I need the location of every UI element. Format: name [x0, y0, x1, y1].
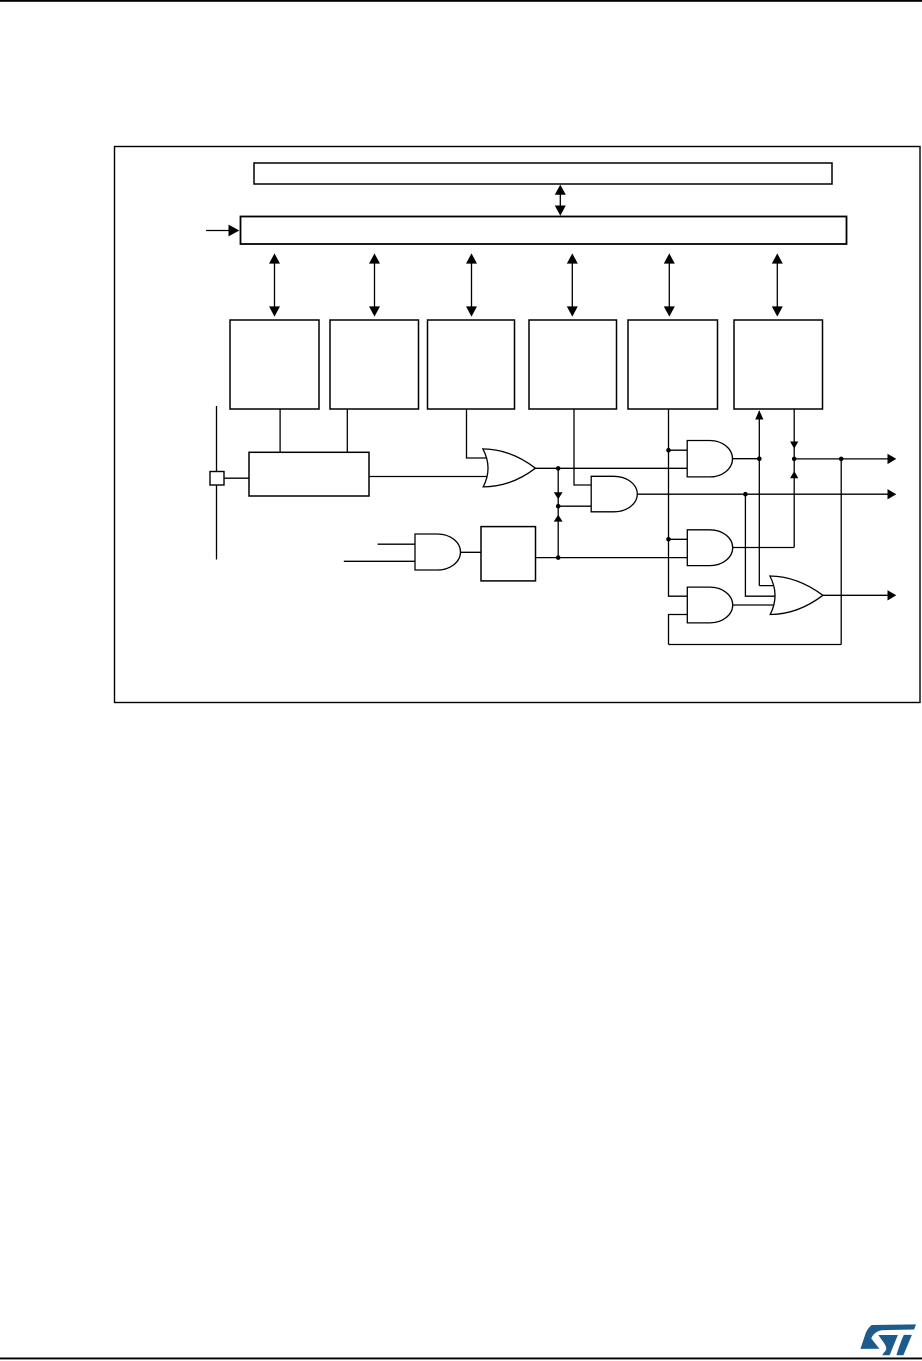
and-gate B — [591, 476, 637, 512]
output arrow 2 — [888, 489, 897, 499]
wire box5 stub down — [669, 409, 688, 596]
top page rule — [0, 0, 922, 2]
node andD output on box6 net — [757, 456, 762, 461]
and-gate C — [415, 534, 461, 570]
wire node-orG middle input — [745, 494, 778, 596]
bottom page rule — [0, 1358, 922, 1360]
output arrow 1 — [888, 454, 897, 464]
wire andC lower input — [344, 560, 415, 562]
double arrow bus2-box5 — [664, 253, 675, 316]
double arrow bus2-box3 — [466, 253, 477, 316]
up direction marker — [554, 515, 563, 522]
wire output1 to right arrow — [794, 458, 888, 460]
figure frame — [115, 147, 921, 703]
bus2 rectangle — [241, 217, 847, 245]
vertical wire node-smallboxnet — [557, 468, 559, 557]
wire andD output — [733, 458, 760, 460]
node andE upper input — [666, 537, 671, 542]
wire orG output to right arrow — [822, 594, 888, 596]
double arrow bus1-bus2 — [555, 185, 566, 216]
wire node-andB lower input — [558, 505, 591, 507]
wire pin-register — [224, 477, 249, 479]
ST logo — [860, 1324, 916, 1355]
wire node-andD upper input — [669, 449, 688, 451]
double arrow bus2-box1 — [269, 253, 280, 316]
node smallbox net — [556, 555, 561, 560]
and-gate D — [687, 441, 732, 477]
wire andC-smallbox — [460, 551, 481, 553]
pin stem vertical line — [216, 406, 218, 560]
wire box1-register — [279, 409, 281, 452]
up direction marker box6 — [790, 471, 798, 478]
box3 — [428, 320, 515, 409]
wire node-andE upper input — [669, 538, 688, 540]
node andB lower input — [556, 504, 561, 509]
down direction marker box6 — [790, 442, 798, 449]
box1 — [230, 320, 319, 409]
double arrow bus2-box6 — [772, 253, 783, 316]
wire box3-orA — [467, 409, 494, 458]
wire net-orG upper input — [759, 585, 778, 587]
box4 — [529, 320, 617, 409]
node on orA output — [556, 466, 561, 471]
wire andF output-orG — [733, 604, 778, 606]
double arrow bus2-box2 — [369, 253, 380, 316]
node andD upper input — [666, 448, 671, 453]
wire box6 stub down — [793, 410, 795, 548]
node feedback tap — [839, 457, 844, 462]
wire andC upper input — [378, 543, 415, 545]
box5 — [628, 320, 718, 409]
wire register-orA — [369, 476, 493, 478]
wire andE output up — [733, 547, 795, 549]
wire box2-register — [346, 409, 348, 452]
or-gate G — [770, 576, 823, 615]
up arrowhead into box6 — [755, 410, 763, 419]
node andB output — [743, 492, 748, 497]
and-gate F — [687, 587, 732, 623]
pin square — [210, 472, 224, 486]
feedback wire left vertical — [669, 615, 688, 645]
box6 — [734, 320, 823, 409]
feedback wire bottom — [669, 644, 842, 646]
wire box6 bidir net with up arrow — [758, 411, 760, 586]
bus1 rectangle — [254, 163, 832, 184]
feedback wire right vertical — [840, 459, 842, 645]
wire box4-andB upper input — [574, 409, 591, 485]
output arrow 3 — [888, 590, 897, 600]
register rectangle — [249, 452, 369, 496]
arrow into bus2 — [206, 225, 239, 237]
node output1 — [792, 457, 797, 462]
box2 — [330, 320, 419, 409]
wire andB output to right arrow — [638, 493, 889, 495]
double arrow bus2-box4 — [567, 253, 578, 316]
down direction marker — [554, 492, 563, 499]
wire orA-andD (output) — [535, 467, 687, 469]
wire smallbox-andE lower input — [536, 557, 688, 559]
small box — [481, 527, 536, 581]
and-gate E — [687, 530, 732, 566]
or-gate A — [483, 449, 536, 487]
